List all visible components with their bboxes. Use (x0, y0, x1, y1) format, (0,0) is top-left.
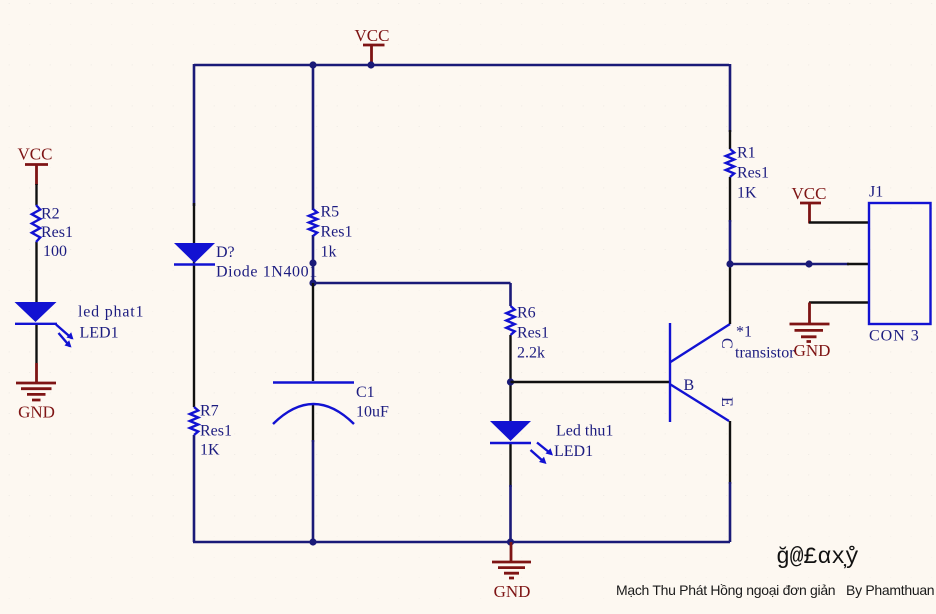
svg-text:D?: D? (216, 244, 235, 261)
wire R6 branch (509, 283, 512, 306)
node junction base wire tap (309, 279, 316, 286)
svg-text:Res1: Res1 (321, 224, 353, 241)
svg-text:GND: GND (18, 403, 55, 422)
node junction collector (726, 260, 733, 267)
svg-text:R2: R2 (41, 206, 60, 223)
ground GND right (790, 303, 831, 361)
resistor R6 (506, 305, 549, 362)
svg-text:ğ@£αx̦ẙ: ğ@£αx̦ẙ (776, 544, 859, 570)
capacitor C1 (273, 383, 389, 425)
ground GND bottom (492, 542, 531, 601)
connector J1 CON 3 (869, 184, 931, 345)
svg-text:E: E (718, 397, 735, 407)
LED Led thu1 LED1 (490, 421, 613, 464)
diode D? Diode 1N4001 (174, 243, 318, 281)
wire pin2 stub (847, 263, 869, 265)
wire C1 branch (312, 283, 314, 442)
svg-text:*1: *1 (736, 324, 752, 341)
svg-text:C: C (718, 338, 735, 349)
svg-text:R5: R5 (321, 204, 340, 221)
wire left rail black segment (193, 203, 195, 407)
svg-text:transistor: transistor (735, 345, 795, 362)
svg-text:GND: GND (794, 341, 831, 360)
resistor R7 (190, 403, 232, 459)
transistor Q *1 (670, 323, 795, 422)
wire left rail (193, 64, 196, 206)
svg-text:R6: R6 (517, 305, 536, 322)
wire emitter pin (729, 421, 731, 484)
wire pin1 (809, 221, 869, 223)
svg-text:Res1: Res1 (41, 224, 73, 241)
LED led phat1 LED1 (15, 302, 145, 348)
svg-text:LED1: LED1 (80, 325, 119, 342)
wire right rail R1 pins black (729, 130, 731, 222)
node junction top R5 (309, 61, 316, 68)
svg-text:1k: 1k (321, 244, 337, 261)
power VCC left (18, 145, 53, 186)
svg-text:J1: J1 (869, 184, 883, 201)
svg-text:CON 3: CON 3 (869, 328, 920, 345)
wire right rail upper (729, 64, 732, 132)
svg-text:100: 100 (43, 243, 67, 260)
svg-text:R1: R1 (737, 145, 756, 162)
node junction pin2 (805, 260, 812, 267)
svg-text:VCC: VCC (355, 26, 390, 45)
svg-text:Diode 1N4001: Diode 1N4001 (216, 264, 318, 281)
node junction bottom GND (507, 538, 514, 545)
wire top rail (194, 64, 729, 67)
svg-text:1K: 1K (200, 442, 220, 459)
resistor R5 (309, 204, 353, 261)
svg-text:Res1: Res1 (737, 165, 769, 182)
svg-text:VCC: VCC (18, 145, 53, 164)
svg-text:R7: R7 (200, 403, 219, 420)
svg-text:VCC: VCC (792, 184, 827, 203)
wire bottom rail (193, 541, 730, 544)
wire R5 branch (312, 65, 315, 283)
svg-text:2.2k: 2.2k (517, 345, 545, 362)
node junction bottom C1 (309, 538, 316, 545)
wire pin3 (809, 301, 869, 303)
wire left branch pin (35, 184, 37, 363)
svg-text:10uF: 10uF (356, 404, 389, 421)
svg-text:B: B (684, 377, 695, 394)
svg-text:Res1: Res1 (517, 325, 549, 342)
svg-text:Res1: Res1 (200, 423, 232, 440)
wire collector to J1 (730, 263, 849, 266)
svg-text:Mạch Thu Phát Hồng ngoại đơn g: Mạch Thu Phát Hồng ngoại đơn giản By Pha… (616, 582, 934, 598)
resistor R1 (726, 145, 769, 202)
wire emitter to bottom rail (729, 482, 732, 542)
svg-text:led phat1: led phat1 (78, 304, 144, 321)
resistor R2 (32, 205, 73, 260)
svg-text:GND: GND (494, 582, 531, 601)
node junction top VCC (367, 61, 374, 68)
ground GND left (16, 363, 56, 422)
power VCC top (355, 26, 390, 64)
power VCC right (792, 184, 827, 224)
svg-text:LED1: LED1 (554, 443, 593, 460)
wire base (511, 381, 670, 383)
svg-text:1K: 1K (737, 185, 757, 202)
node junction R5 lower (309, 259, 316, 266)
node junction base (507, 378, 514, 385)
svg-text:C1: C1 (356, 384, 375, 401)
wire collector pin (729, 264, 731, 324)
wire right rail lower (729, 220, 732, 264)
wire middle horizontal (313, 282, 511, 285)
svg-text:Led thu1: Led thu1 (556, 423, 613, 440)
